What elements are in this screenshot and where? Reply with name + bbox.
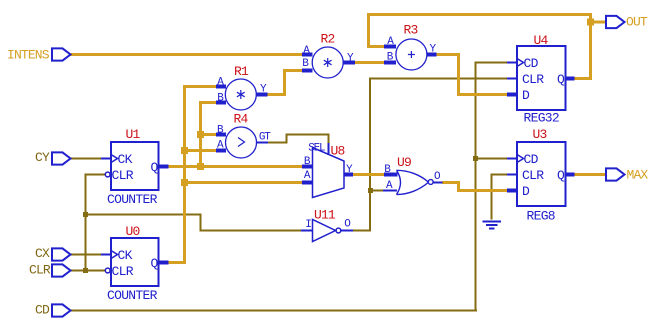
svg-text:U4: U4 [534,33,549,48]
adder R3 circle [396,39,427,70]
wire net X vertical (U0.Q) [183,85,186,264]
pin lead U4.CD [507,62,517,64]
wire R4.GT horizontal [268,142,287,144]
svg-text:Q: Q [151,256,159,271]
pin lead U3.CD [507,158,517,160]
comparator R4 circle [226,127,257,158]
pin stub R4.B [216,133,226,137]
wire U9.O horizontal [442,181,460,184]
svg-text:MAX: MAX [627,168,649,183]
port INTENS symbol [52,48,71,60]
clock wedge U1.CK [111,155,118,163]
pin stub U0.Q [158,261,169,265]
svg-text:CLR: CLR [112,168,134,183]
nor gate U9 body [397,170,434,194]
wire U0.Q horizontal [168,261,186,264]
svg-text:CK: CK [118,152,133,167]
ground symbol [483,222,502,229]
pin stub U3.Q [566,173,575,177]
pin stub R1.A [216,85,226,89]
register U4 box [517,46,566,110]
mux U8 body [313,148,345,198]
junction CD / U3.CD [473,156,478,161]
wire net X to R1.A [183,85,216,88]
svg-text:CD: CD [524,56,539,71]
svg-text:U0: U0 [126,224,140,239]
wire U11.O vertical [369,78,371,232]
wire CLR to U11 vertical jog [200,214,202,232]
wire CLR to U1.CLR [85,174,106,176]
inverter U11 body [313,220,341,242]
wire CY [70,158,102,160]
wire R4.GT to U8.SEL [328,134,330,145]
wire INTENS bus [70,53,302,56]
svg-text:CX: CX [35,246,50,261]
wire U8.Y to U9.B [353,173,384,176]
wire U4.Q horizontal [574,77,592,80]
pin stub U8.A [302,181,313,185]
wire R1.Y to R2.B [283,69,302,72]
wire CLR to U11 horizontal [85,214,202,216]
svg-text:OUT: OUT [626,15,648,30]
wire CLR vertical [85,174,87,272]
svg-text:CLR: CLR [29,263,51,278]
wire feedback vertical to R3.A [367,13,370,48]
wire R1.Y horizontal [267,93,286,96]
wire R3.Y horizontal [436,53,460,56]
svg-text:R1: R1 [234,64,249,79]
svg-text:GT: GT [259,132,271,144]
wire U9.O vertical jog [457,181,460,192]
pin lead U8.SEL [328,143,330,155]
wire R3.Y vertical [457,53,460,96]
wire R4.GT upper horizontal [286,134,330,136]
junction CLR port / vertical [83,268,88,273]
svg-text:D: D [522,184,530,199]
junction net X / U8.A [181,179,188,186]
svg-text:CY: CY [35,150,50,165]
port OUT symbol [606,16,625,28]
wire feedback top horizontal [367,13,592,16]
junction CLR / U11 branch [83,212,88,217]
pin stub U4.Q [566,77,575,81]
pin stub U9.B [384,173,398,177]
pin stub R2.B [302,69,313,73]
svg-text:CK: CK [118,248,133,263]
wire R4.GT vertical jog [286,134,288,144]
svg-text:CD: CD [524,152,539,167]
svg-text:Q: Q [151,160,159,175]
wire net Y to R1.B [199,101,216,104]
wire net X to U8.A [183,181,302,184]
operator glyph R1 asterisk [237,90,245,99]
wire U3.CLR vertical to ground [491,175,493,220]
pin lead U9.A [383,190,397,192]
wire U11.O horizontal [353,230,371,232]
svg-text:R2: R2 [321,32,335,47]
wire to U4.D [457,93,508,96]
wire net Y vertical (U1.Q) [199,101,202,168]
pin stub R3.B [384,61,396,65]
counter U1 box [111,142,159,190]
wire to R3.A [367,45,384,48]
svg-text:CLR: CLR [522,72,544,87]
register U3 box [517,142,566,206]
pin stub R4.A [216,149,226,153]
svg-text:SEL: SEL [308,143,325,155]
pin stub U8.B [302,165,313,169]
pin stub R3.A [384,45,396,49]
svg-text:U3: U3 [533,127,547,142]
operator glyph R3 plus [408,51,415,58]
pin stub U1.Q [158,165,169,169]
svg-text:Q: Q [557,168,565,183]
svg-text:COUNTER: COUNTER [107,288,158,303]
clock wedge U0.CK [111,251,118,259]
svg-text:R4: R4 [234,112,249,127]
wire CD vertical [475,62,477,312]
junction net X / R4.A [181,147,188,154]
pin stub R2.A [302,53,313,57]
wire to U11.I [200,230,303,232]
pin lead U0.CK [101,254,111,256]
wire U11.O to U4.CLR [369,78,508,80]
port CLR symbol [52,264,71,276]
pin stub U8.Y [344,173,353,177]
pin lead R4.GT [256,142,268,144]
pin lead U9.O [433,182,443,184]
svg-text:U8: U8 [331,144,345,159]
svg-text:INTENS: INTENS [7,48,50,63]
multiplier R1 circle [225,79,256,110]
junction net Y / U1.Q [197,163,204,170]
wire net X to R4.A [183,149,216,152]
port MAX symbol [606,168,625,180]
wire CLR port [70,270,105,272]
junction U11.O / U9.A [368,188,373,193]
wire U11.O to U9.A [369,190,384,192]
svg-text:CD: CD [35,303,50,318]
pin stub R2.Y [343,61,355,65]
clock wedge U3.CD [517,155,524,163]
wire OUT vertical [589,13,592,80]
pin lead U1.CK [101,158,111,160]
bubble U1.CLR [105,172,110,177]
operator glyph R4 greater-than [238,138,245,147]
svg-text:CLR: CLR [522,168,544,183]
svg-text:CLR: CLR [112,264,134,279]
wire to OUT port [589,21,606,24]
counter U0 box [111,238,159,286]
clock wedge U4.CD [517,59,524,67]
operator glyph R2 asterisk [324,58,332,67]
pin stub U4.D [507,93,517,97]
pin lead U4.CLR [507,78,517,80]
wire net Y to R4.B [199,133,216,136]
bubble U0.CLR [105,268,110,273]
wire U1.Q to U8.B [168,165,302,168]
wire CX [70,254,102,256]
wire to U3.D [457,189,508,192]
port CX symbol [52,248,71,260]
svg-text:R3: R3 [404,23,418,38]
svg-text:U1: U1 [126,127,141,142]
svg-text:U11: U11 [314,208,336,223]
multiplier R2 circle [312,47,343,78]
svg-text:D: D [522,88,530,103]
pin lead U11.I [301,230,313,232]
pin lead U11.O [341,230,353,232]
svg-text:Q: Q [557,72,565,87]
wire U3.Q to MAX [574,173,606,176]
inverter U11 bubble [336,228,341,233]
svg-text:U9: U9 [397,155,411,170]
wire CD horizontal [70,310,477,312]
port CD symbol [52,304,71,316]
pin stub R1.B [216,101,226,105]
port CY symbol [52,152,71,164]
pin stub R3.Y [427,53,437,57]
wire CD to U4.CD [475,62,509,64]
svg-text:COUNTER: COUNTER [107,192,158,207]
wire R2.Y to R3.B [355,61,384,64]
wire U3.CLR horizontal [491,174,509,176]
junction OUT feedback [587,19,594,26]
svg-text:REG8: REG8 [527,209,555,224]
svg-text:I: I [305,219,311,231]
nor gate U9 bubble [428,180,433,185]
pin stub R1.Y [256,93,268,97]
wire CD to U3.CD [475,158,509,160]
pin lead U3.CLR [507,174,517,176]
svg-text:REG32: REG32 [524,111,560,126]
pin stub U3.D [507,189,517,193]
junction net Y / R4.B [197,131,204,138]
wire R1.Y vertical [283,69,286,96]
